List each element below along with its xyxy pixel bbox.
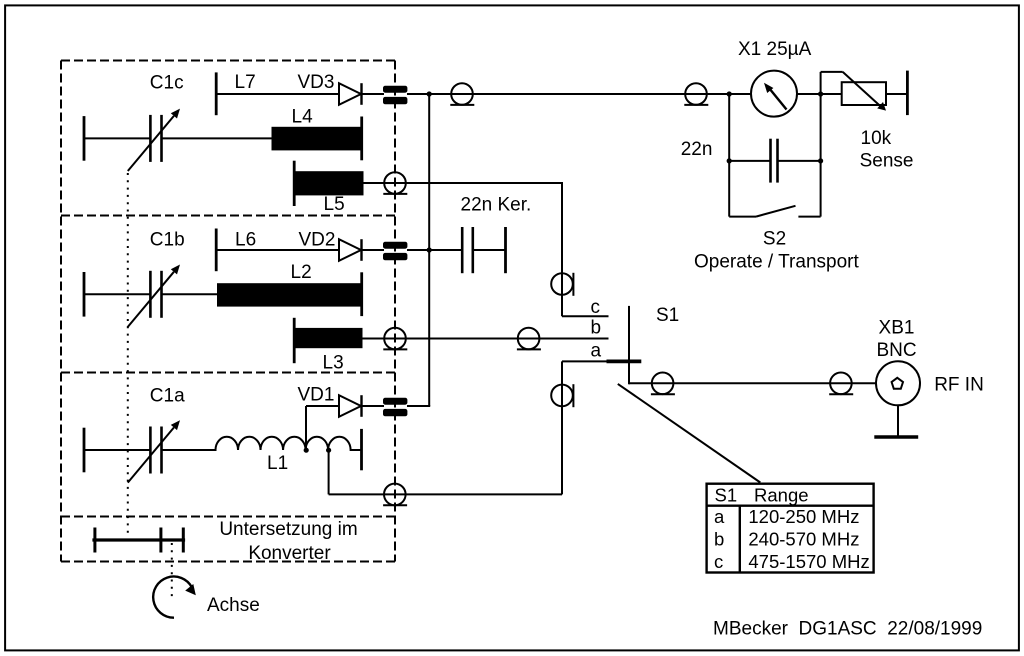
table S1 Range frame [707, 484, 874, 573]
wire L3 to switch contact b [363, 338, 609, 340]
node: 22n right junction [818, 158, 823, 163]
wire band-a vertical to contact a [561, 361, 563, 494]
node: L1 tap to switch contact a [326, 448, 331, 453]
svg-text:c: c [591, 297, 601, 318]
svg-text:MBecker DG1ASC 22/08/1999: MBecker DG1ASC 22/08/1999 [713, 619, 982, 640]
coil L7 terminal bar [215, 72, 218, 115]
potentiometer 10k body [842, 82, 886, 105]
svg-text:C1c: C1c [150, 73, 184, 94]
reduction drive middle bar [159, 528, 162, 553]
coil L3 end bar [293, 318, 296, 363]
sense output terminal bar [906, 71, 909, 116]
wire meter to potentiometer [797, 93, 842, 95]
diode VD3 [339, 83, 361, 105]
node: meter input junction [727, 91, 732, 96]
feedthrough capacitor at VD3 output [383, 86, 407, 93]
wire VD1 to feedthrough [362, 405, 385, 407]
wire 22n right stub [778, 160, 821, 162]
ground [874, 435, 918, 438]
svg-text:Untersetzung im: Untersetzung im [219, 519, 357, 540]
svg-text:XB1: XB1 [879, 318, 915, 339]
leader line from S1 to range table [618, 384, 761, 483]
node: detector bus junction VD2 [427, 247, 432, 252]
coil L2 end bar [360, 272, 363, 316]
coil L5 [296, 171, 364, 195]
feedthrough insulator on band-a riser [551, 385, 573, 407]
wire detector bus top: feedthrough to meter line [407, 93, 907, 95]
svg-text:C1b: C1b [150, 230, 185, 251]
svg-text:L7: L7 [235, 72, 256, 93]
coil L6 terminal bar [215, 229, 218, 272]
wire C1c terminal to plates [84, 137, 150, 139]
svg-text:BNC: BNC [876, 340, 916, 361]
wire C1c to L4 [162, 137, 273, 139]
capacitor C1c left terminal bar [83, 116, 86, 161]
wire S1 contact a [562, 360, 608, 362]
svg-text:L1: L1 [267, 453, 288, 474]
svg-text:VD3: VD3 [298, 72, 335, 93]
wire C1b terminal to plates [84, 293, 150, 295]
wire L1 tap up to diode VD1 [305, 406, 307, 450]
node: meter output junction [818, 91, 823, 96]
svg-text:a: a [591, 341, 602, 362]
wire 22n Ker. to stub terminal [473, 249, 506, 251]
drive axle dotted line [171, 543, 173, 598]
feedthrough insulator on band-a wire [384, 484, 406, 506]
coil L2 [217, 283, 361, 306]
wire VD2 to feedthrough [362, 249, 385, 251]
coil L1 [216, 437, 361, 450]
svg-text:S2: S2 [763, 229, 786, 250]
table column divider [739, 506, 741, 573]
svg-text:S1: S1 [715, 484, 738, 505]
svg-text:b: b [591, 317, 602, 338]
svg-text:Range: Range [754, 484, 809, 505]
reduction drive right bar [182, 528, 185, 553]
svg-text:10k: 10k [861, 128, 892, 149]
table header separator [707, 505, 874, 507]
wire meter shunt left leg [728, 94, 730, 217]
potentiometer 10k wiper link [820, 72, 822, 94]
svg-text:240-570 MHz: 240-570 MHz [748, 528, 859, 549]
coil L4 [272, 127, 362, 151]
wire L7 terminal to diode VD3 [216, 93, 340, 95]
wire L6 terminal to diode VD2 [216, 249, 340, 251]
tuning shaft dotted line [127, 173, 129, 538]
switch S1 pole [628, 306, 630, 384]
svg-text:475-1570 MHz: 475-1570 MHz [748, 551, 869, 572]
svg-text:22n: 22n [681, 139, 713, 160]
diode VD1 [339, 395, 361, 417]
svg-text:22n Ker.: 22n Ker. [461, 195, 532, 216]
meter X1 body [751, 71, 797, 117]
svg-text:120-250 MHz: 120-250 MHz [748, 506, 859, 527]
potentiometer 10k wiper arrow [843, 72, 881, 106]
wire L5 to switch contact c [364, 182, 563, 184]
svg-text:VD1: VD1 [298, 385, 335, 406]
wire feedthrough to 22n Ker capacitor [407, 249, 462, 251]
capacitor C1b plates [149, 271, 152, 318]
feedthrough insulator on band-c wire [551, 273, 573, 295]
feedthrough insulator before XB1 [830, 373, 852, 395]
switch S2 blade [756, 206, 796, 217]
capacitor C1a plates [149, 427, 152, 474]
capacitor C1b left terminal bar [83, 272, 86, 317]
axle rotation arrow (Achse) [153, 577, 192, 618]
svg-text:c: c [714, 551, 723, 572]
svg-text:b: b [714, 528, 724, 549]
wire S1 pole to BNC [629, 382, 892, 384]
svg-text:L5: L5 [324, 194, 345, 215]
wire C1a to L1 [162, 449, 217, 451]
feedthrough insulator on detector line [451, 83, 473, 105]
capacitor C1a adjustment arrow [128, 428, 174, 483]
diode VD2 [339, 239, 361, 261]
coil L1 end bar [360, 429, 363, 470]
svg-text:S1: S1 [656, 305, 679, 326]
svg-text:C1a: C1a [150, 385, 185, 406]
feedthrough insulator after S1 [652, 373, 674, 395]
switch S2 right stub [798, 216, 820, 218]
svg-text:RF IN: RF IN [934, 374, 984, 395]
22n Ker. stub terminal bar [504, 227, 507, 273]
node: L1 tap to VD1 [304, 448, 309, 453]
wire 22n left stub [729, 160, 770, 162]
coil L4 end bar [360, 117, 363, 161]
XB1 ground stem [897, 405, 899, 436]
connector XB1 BNC body [876, 361, 920, 405]
connector XB1 center pin [892, 378, 903, 389]
capacitor C1c plates [149, 115, 152, 162]
switch S2 left stub [729, 216, 756, 218]
node: 22n left junction [727, 158, 732, 163]
svg-text:X1 25µA: X1 25µA [738, 39, 812, 60]
coil L5 end bar [293, 161, 296, 206]
capacitor C1b adjustment arrow [128, 272, 174, 327]
wire L1 tap to contact a feedthrough [328, 450, 330, 494]
svg-text:a: a [714, 506, 725, 527]
capacitor 22n Ker. plates [461, 227, 464, 273]
reduction drive shaft [92, 538, 185, 541]
node: detector bus junction VD3 [427, 91, 432, 96]
feedthrough insulator on L3 output [384, 328, 406, 350]
wire meter shunt right leg [820, 94, 822, 217]
svg-text:Operate / Transport: Operate / Transport [694, 251, 859, 272]
svg-text:L6: L6 [235, 229, 256, 250]
svg-text:Sense: Sense [860, 151, 914, 172]
capacitor 22n plates [769, 139, 772, 183]
svg-text:Achse: Achse [207, 595, 260, 616]
svg-text:L2: L2 [291, 262, 312, 283]
reduction drive left bar [93, 528, 96, 553]
svg-text:L4: L4 [292, 107, 314, 128]
meter X1 needle [768, 87, 787, 110]
shielded tuner enclosure (dashed) [61, 61, 395, 562]
wire C1a terminal to plates [84, 449, 150, 451]
feedthrough capacitor at VD1 output [383, 398, 407, 405]
wire C1b to L2 [162, 293, 219, 295]
feedthrough insulator on meter line [685, 83, 707, 105]
capacitor C1a left terminal bar [83, 428, 86, 473]
feedthrough insulator on band-b wire [518, 328, 540, 350]
svg-text:L3: L3 [323, 353, 344, 374]
feedthrough capacitor at VD2 output [383, 242, 407, 249]
wire band-c vertical to contact c [561, 182, 563, 316]
coil L3 [296, 328, 363, 348]
detector bus vertical wire [428, 94, 430, 406]
svg-text:VD2: VD2 [299, 229, 336, 250]
wire feedthrough to detector bus [407, 405, 430, 407]
feedthrough insulator on L5 output [384, 172, 406, 194]
svg-text:Konverter: Konverter [248, 543, 331, 564]
wire VD3 to feedthrough [362, 93, 385, 95]
capacitor C1c adjustment arrow [128, 116, 174, 171]
